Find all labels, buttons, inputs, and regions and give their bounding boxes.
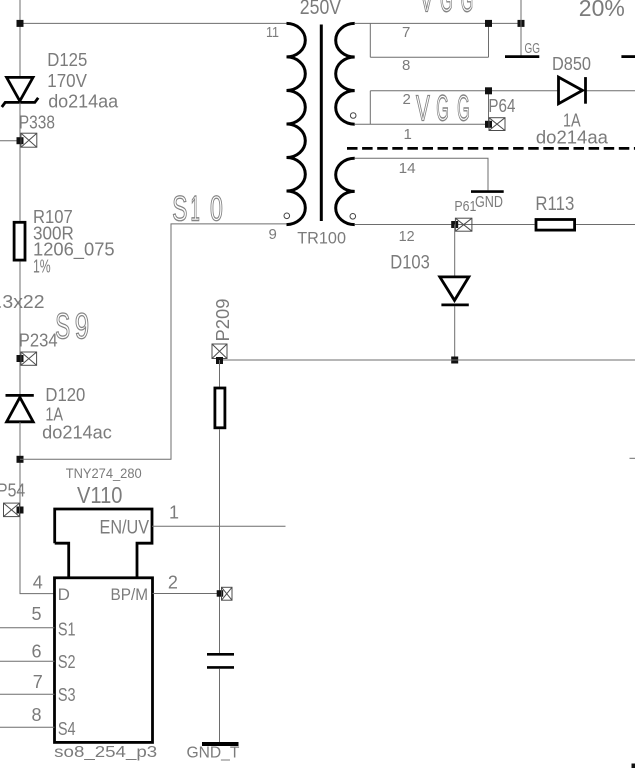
svg-text:9: 9	[269, 226, 277, 243]
svg-text:D103: D103	[390, 253, 430, 274]
wire pin2 VGG line	[370, 90, 635, 92]
TR100 primary polarity dot	[284, 213, 290, 219]
svg-text:P338: P338	[19, 112, 55, 132]
node BP/M junction	[217, 590, 224, 597]
svg-text:GND: GND	[475, 194, 503, 211]
svg-text:P61: P61	[454, 198, 476, 215]
svg-text:D: D	[58, 585, 70, 604]
svg-text:S: S	[172, 190, 187, 229]
node D103 bottom junction	[451, 357, 458, 364]
svg-text:GG: GG	[525, 41, 541, 57]
TR100 lower secondary polarity dot	[350, 214, 356, 220]
diode D125 zener	[2, 77, 38, 107]
svg-text:V110: V110	[77, 482, 122, 508]
svg-text:P209: P209	[213, 299, 233, 342]
svg-text:D850: D850	[552, 54, 591, 74]
wire R107 to D120	[19, 262, 21, 395]
TR100 secondary polarity dot	[350, 113, 356, 119]
testpoint P234	[21, 352, 37, 365]
wire D125 to R107	[19, 103, 21, 221]
node P54 junction	[17, 507, 24, 514]
diode D850	[559, 77, 586, 104]
wire top horizontal to TR100 pin 11	[20, 22, 287, 24]
svg-text:EN/UV: EN/UV	[100, 517, 150, 538]
svg-text:P234: P234	[19, 331, 58, 351]
svg-text:P64: P64	[488, 96, 515, 116]
svg-text:9: 9	[75, 306, 89, 346]
svg-text:BP/M: BP/M	[111, 585, 149, 604]
wire pin1	[152, 525, 286, 527]
power rail bar right edge	[621, 55, 635, 58]
svg-text:11: 11	[266, 24, 279, 41]
wire pin5	[0, 627, 55, 629]
diode D103	[440, 277, 469, 305]
wire pin7 stub	[0, 693, 55, 695]
node bottom right corner	[632, 764, 635, 768]
svg-text:G: G	[440, 0, 453, 19]
wire capacitor to GND_T	[219, 669, 221, 744]
node junction top-left	[17, 20, 24, 27]
net label S9	[55, 306, 89, 347]
svg-text:14: 14	[399, 160, 416, 177]
svg-text:1: 1	[169, 502, 179, 522]
svg-text:do214aa: do214aa	[536, 128, 609, 148]
ground bar GND_T	[202, 742, 239, 746]
svg-text:S3: S3	[58, 685, 76, 705]
svg-text:7: 7	[33, 672, 43, 692]
resistor R113	[536, 220, 575, 231]
power rail bar GG	[505, 55, 539, 58]
wire pin7	[355, 22, 521, 24]
node P61 junction	[451, 221, 458, 228]
wire pin2 BP/M	[153, 593, 220, 595]
svg-text:TR100: TR100	[297, 228, 346, 247]
svg-text:S2: S2	[58, 652, 76, 672]
wire pin7/8 loop	[370, 23, 488, 57]
svg-text:.3x22: .3x22	[0, 292, 45, 312]
wire P209 down to resistor	[219, 360, 221, 387]
svg-text:7: 7	[402, 24, 410, 41]
node pin1 junction	[485, 121, 492, 128]
testpoint P209	[212, 344, 227, 359]
node pin2 junction	[485, 87, 492, 94]
testpoint BP/M	[222, 587, 233, 600]
svg-text:GND_T: GND_T	[187, 745, 240, 762]
IC V110 main box	[55, 578, 153, 743]
wire pin2/1 loop	[355, 91, 489, 124]
svg-text:12: 12	[399, 228, 415, 245]
resistor R107	[14, 222, 25, 260]
svg-text:G: G	[436, 88, 449, 128]
wire horizontal bus y360	[220, 359, 635, 361]
svg-text:D120: D120	[45, 385, 85, 405]
testpoint P54	[4, 503, 20, 516]
node P234 junction	[17, 355, 24, 362]
svg-text:170V: 170V	[47, 71, 87, 91]
testpoint P64	[489, 118, 505, 131]
svg-text:V: V	[416, 88, 430, 128]
node VGG rail junction	[518, 20, 525, 27]
wire pin8 stub	[0, 726, 55, 728]
svg-text:V: V	[420, 0, 434, 20]
svg-text:250V: 250V	[300, 0, 341, 19]
svg-text:S4: S4	[58, 719, 76, 739]
transformer TR100 secondary winding pins 7-8-2-1	[336, 23, 355, 124]
IC V110 neck left	[55, 543, 69, 578]
svg-text:P54: P54	[0, 481, 25, 501]
wire VGG rail vertical	[520, 0, 522, 56]
svg-text:do214ac: do214ac	[42, 422, 112, 442]
wire D120 down to IC pin4	[20, 422, 55, 594]
svg-text:do214aa: do214aa	[48, 92, 119, 112]
net label VGG top (cut)	[420, 0, 474, 20]
wire pin12 line	[355, 224, 635, 226]
node P209 junction	[216, 357, 223, 364]
svg-text:0: 0	[210, 190, 223, 229]
svg-text:2: 2	[168, 572, 178, 592]
transformer TR100 primary winding pins 11-9	[287, 23, 306, 224]
svg-text:G: G	[457, 88, 470, 128]
transformer TR100 secondary winding pins 14-12	[336, 158, 355, 224]
svg-text:8: 8	[32, 705, 42, 725]
svg-text:6: 6	[32, 642, 42, 662]
svg-text:8: 8	[402, 57, 410, 74]
svg-text:1: 1	[404, 126, 412, 143]
resistor R209	[215, 388, 225, 428]
wire P338 stub	[0, 140, 20, 142]
svg-text:G: G	[461, 0, 474, 19]
op-amp U1 ... IC V110 top box EN/UV	[55, 509, 152, 578]
diode D120	[6, 395, 34, 421]
wire pin14 to GND	[355, 158, 488, 190]
net label VGG	[416, 88, 470, 129]
wire left vertical top	[19, 0, 21, 78]
wire resistor to capacitor	[219, 429, 221, 653]
node P338 junction	[17, 137, 24, 144]
svg-text:1: 1	[191, 189, 200, 229]
wire D103 vertical	[454, 225, 456, 361]
node D120 bottom junction	[17, 456, 24, 463]
svg-text:5: 5	[32, 604, 42, 624]
node pin7 junction	[485, 20, 492, 27]
svg-text:1%: 1%	[33, 257, 51, 277]
svg-text:TNY274_280: TNY274_280	[66, 466, 142, 481]
svg-text:so8_254_p3: so8_254_p3	[54, 744, 157, 761]
svg-text:4: 4	[33, 573, 43, 593]
dashed separator line	[347, 147, 635, 150]
testpoint P61	[455, 218, 472, 231]
svg-text:D125: D125	[47, 50, 87, 70]
ground bar GND	[471, 190, 504, 193]
svg-text:R113: R113	[535, 194, 574, 215]
svg-text:S1: S1	[58, 619, 76, 639]
wire S10 net: junction right, up, to TR100 pin 9	[20, 224, 287, 459]
svg-text:2: 2	[403, 91, 411, 108]
wire pin6	[0, 660, 55, 662]
TR100 core	[320, 25, 323, 222]
svg-text:20%: 20%	[579, 0, 625, 21]
wire right edge stub	[630, 457, 635, 459]
testpoint P338	[21, 133, 37, 147]
capacitor C1	[207, 654, 234, 667]
net label S10	[172, 189, 223, 229]
